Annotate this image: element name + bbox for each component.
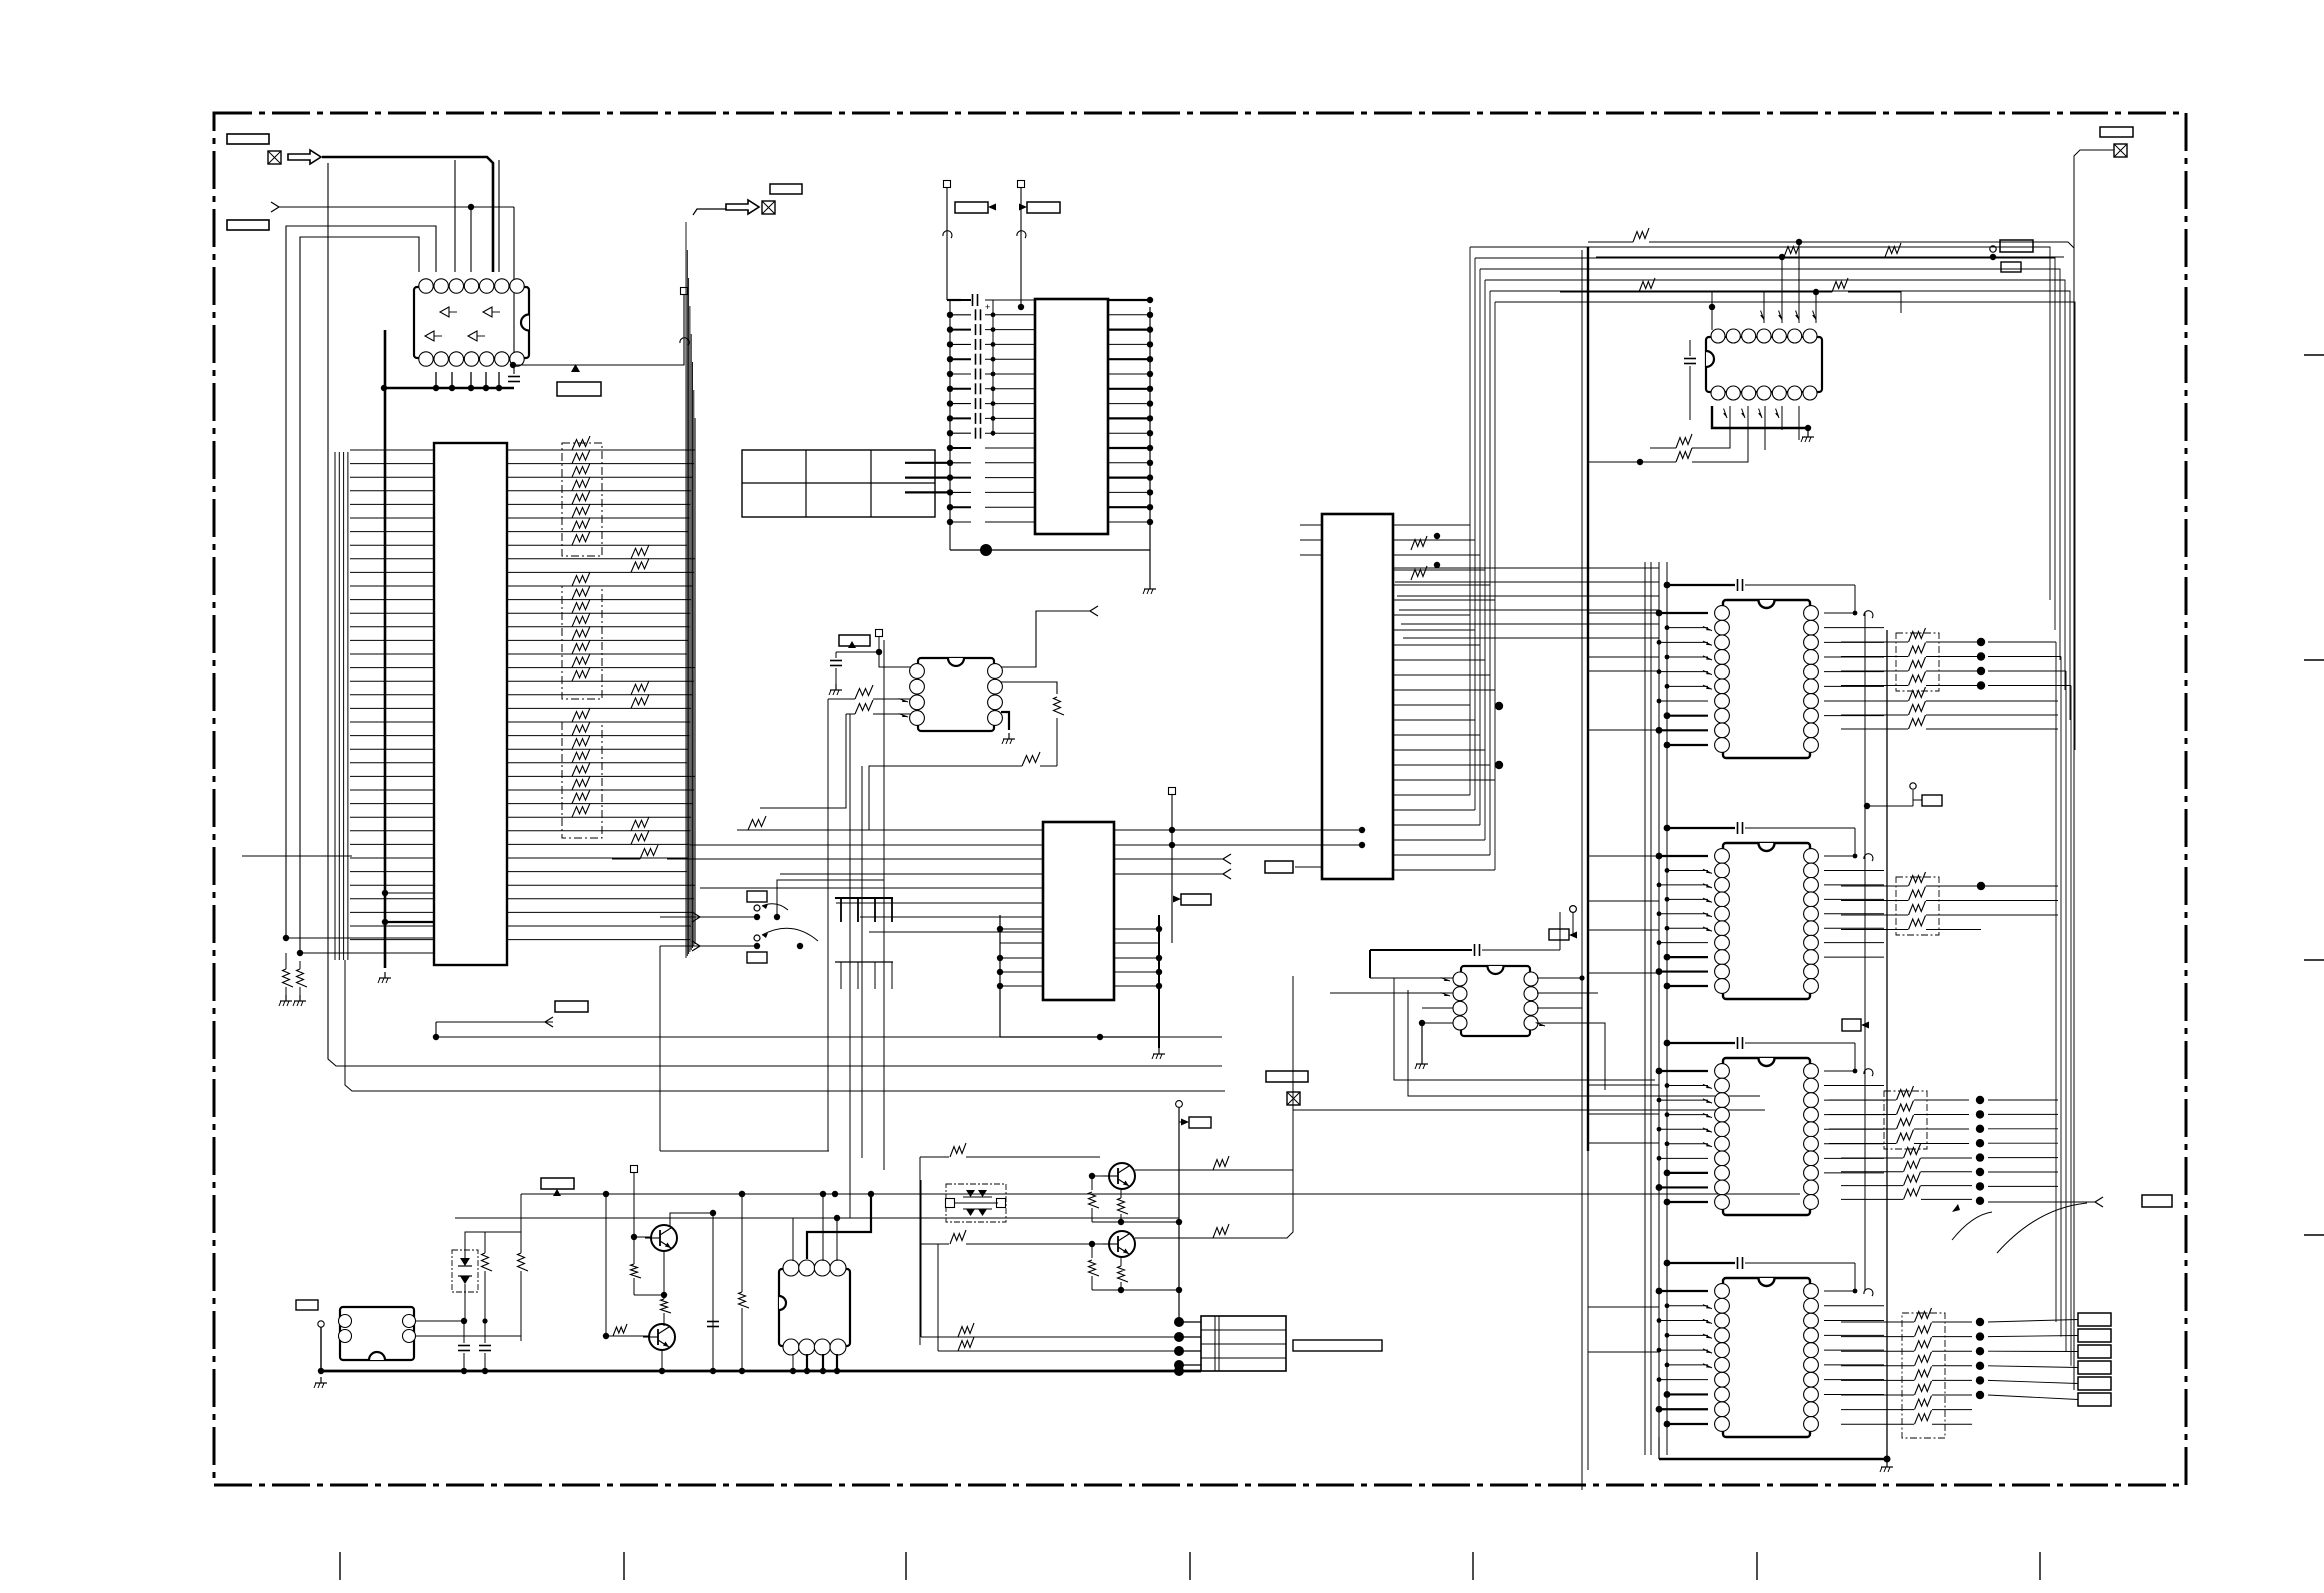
wire down to cap	[513, 207, 515, 374]
long net C	[455, 1217, 1179, 1219]
IC9 left pin wires	[1656, 853, 1712, 990]
curl symbol	[1864, 1289, 1873, 1296]
cap C3	[830, 660, 842, 662]
junction	[510, 362, 516, 368]
curl symbol	[1864, 854, 1873, 861]
wire net	[520, 1194, 522, 1232]
label box L11	[747, 891, 767, 902]
resistor R12	[631, 681, 649, 695]
label box L17	[1189, 1117, 1211, 1128]
IC10 right pin wires	[1824, 1086, 1884, 1173]
long net	[760, 714, 846, 808]
wire to pin	[454, 160, 456, 272]
IC1 bottom pin wires	[435, 372, 437, 388]
junction	[283, 935, 289, 941]
resistor R31	[518, 1253, 529, 1271]
ground bus bottom	[321, 1370, 1201, 1373]
wire loop	[1559, 912, 1561, 950]
resistor R16 to ground	[283, 969, 294, 987]
label box L6	[955, 202, 988, 213]
resistor R32	[739, 1292, 750, 1308]
dual diode D2 (dash-dot box)	[946, 1184, 1006, 1222]
IC3 right pin wires	[1108, 297, 1153, 525]
square terminal T1	[681, 288, 688, 295]
buffer IC9	[1723, 843, 1810, 999]
thick bus to CN1	[1174, 1366, 1184, 1376]
resistor R44	[1832, 278, 1848, 292]
riser top bend to A2	[693, 209, 726, 215]
ground	[1158, 1048, 1160, 1054]
square terminal	[876, 630, 883, 637]
resistor network RN3 (dash-dot box)	[562, 722, 602, 838]
resistor R23	[1022, 752, 1040, 766]
rail feed stubs	[1588, 612, 1659, 614]
junction node B	[1495, 761, 1503, 769]
curl symbol	[680, 338, 689, 345]
open arrow net	[545, 1017, 553, 1027]
resistor R41	[1885, 243, 1901, 257]
net lines	[1939, 885, 2058, 887]
long net B	[521, 1193, 1800, 1195]
decoupling capacitor C1	[508, 376, 520, 378]
switch SW1	[692, 912, 700, 922]
wire bend bus3	[328, 163, 1222, 1066]
resistor R11	[631, 558, 649, 572]
IC13 left wires	[1370, 977, 1453, 979]
ground	[384, 972, 386, 978]
wire stub	[385, 892, 434, 894]
square terminal	[1169, 788, 1176, 795]
label box L9	[1181, 894, 1211, 905]
bottom rail	[950, 549, 1150, 551]
gnd bus right	[1659, 1458, 1887, 1460]
IC2 left pin wires	[350, 450, 434, 940]
pll IC13	[1461, 966, 1530, 1036]
diode pair D1 (dash-dot box)	[452, 1250, 478, 1292]
left wire band	[335, 452, 348, 960]
wire horizontal net	[279, 206, 514, 208]
cap bus vertical	[992, 300, 994, 436]
resistor R33	[950, 1143, 966, 1157]
net lines 2	[1988, 1099, 2058, 1101]
resistor R50	[1411, 536, 1427, 550]
ground	[299, 995, 301, 1001]
net riser2	[849, 714, 851, 1218]
wire	[1001, 682, 1057, 694]
IC8 right pin wires	[1824, 628, 1884, 716]
label box L4	[770, 184, 802, 194]
resistor R43	[1639, 278, 1655, 292]
IC5 right wires b	[1114, 858, 1223, 860]
feed wire	[1178, 1108, 1180, 1322]
cap C12	[1737, 1257, 1739, 1269]
IC4 right wires	[1001, 611, 1090, 667]
wire	[712, 1213, 714, 1371]
junction	[710, 1368, 716, 1374]
wire riser	[919, 1157, 921, 1345]
IC12 right pin wires	[1393, 525, 1495, 870]
resistor network RN4	[1896, 633, 1939, 691]
label box L24	[1842, 1019, 1861, 1031]
wire to pin	[498, 160, 500, 272]
terminal circle	[1570, 906, 1577, 913]
svg-text:+: +	[985, 302, 990, 312]
label box L20	[2001, 262, 2021, 272]
IC13 right wires	[1537, 977, 1582, 979]
header J1	[835, 897, 893, 899]
IC11 right pin wires	[1824, 1306, 1884, 1395]
CN1 feed nets	[921, 1336, 1179, 1338]
wire bottom row b	[300, 952, 434, 954]
junction node A	[1495, 702, 1503, 710]
ground	[1149, 583, 1151, 589]
clock line 2	[1020, 186, 1022, 307]
main CPU IC2	[434, 443, 507, 965]
thick rail right	[1587, 247, 1589, 1151]
switch riser	[777, 880, 884, 917]
IC5 right wires c	[1114, 873, 1223, 875]
resistor R30	[482, 1253, 493, 1271]
net h2b	[1620, 292, 1712, 330]
net B dots	[739, 1191, 745, 1197]
signal flow arrow A1	[288, 150, 321, 164]
right ruler tick marks	[2304, 355, 2324, 1235]
big loop2	[1293, 976, 1765, 1110]
junction dots	[1977, 638, 1985, 646]
curl symbol	[943, 231, 952, 238]
bottom ruler tick marks	[340, 1552, 2040, 1580]
IC11 left pin wires	[1656, 1288, 1712, 1428]
wire bottom row a	[286, 937, 434, 939]
wire	[485, 1231, 521, 1233]
vertical riser band right	[2055, 642, 2057, 1322]
driver IC6	[779, 1269, 850, 1346]
double rail	[1581, 250, 1583, 1490]
resistor R24	[748, 816, 766, 830]
resistor R34	[950, 1230, 966, 1244]
cap C9	[1737, 579, 1739, 591]
logic IC7	[1706, 337, 1822, 392]
IC6 bottom wires	[792, 1354, 794, 1371]
curl symbol	[1864, 1069, 1873, 1076]
resistor R20	[855, 685, 873, 699]
terminal circle	[318, 1321, 324, 1327]
curl symbol	[1864, 611, 1873, 618]
label box L23	[2142, 1195, 2172, 1207]
resistor R21	[855, 700, 873, 714]
net bus mid1	[659, 946, 661, 1151]
CN1 pin dots	[1174, 1317, 1184, 1327]
ground bus under IC1	[384, 387, 514, 390]
cap C6	[707, 1321, 719, 1323]
IC6 left notch	[779, 1296, 786, 1310]
label box L19	[2000, 240, 2033, 252]
wire bend bus2	[300, 237, 419, 953]
bottom pin arrows	[1724, 409, 1727, 418]
motor connector CN1	[1201, 1316, 1286, 1371]
resistor network RN5	[1896, 877, 1939, 935]
power triangle	[848, 641, 856, 648]
cap C10	[1737, 822, 1739, 834]
signal flow arrow A2	[726, 200, 759, 214]
big loop1b	[1408, 990, 1760, 1096]
wire riser4	[937, 1244, 939, 1351]
thick stub	[385, 921, 434, 923]
resistor R25	[640, 845, 658, 859]
cap C5	[479, 1345, 491, 1347]
right riser wire band	[686, 222, 695, 958]
wire riser3	[920, 1180, 922, 1337]
left rail bus	[1644, 562, 1646, 1455]
wire down	[470, 207, 472, 272]
cap C4	[458, 1345, 470, 1347]
label box L21	[2100, 127, 2133, 137]
resistor R13	[631, 694, 649, 708]
loose resistors 2	[1904, 1144, 1921, 1158]
right rail	[1149, 307, 1151, 583]
op-amp IC4	[918, 658, 994, 731]
trim arrows	[1997, 1203, 2087, 1253]
resistor network RN7	[1902, 1313, 1945, 1438]
wire top link	[465, 1232, 485, 1240]
op-amp buffer IC1	[414, 287, 529, 358]
crystal resonator X2	[340, 1307, 414, 1360]
resistor R46	[1676, 448, 1692, 462]
label box L16	[1266, 1071, 1308, 1082]
thick wire	[1001, 712, 1009, 730]
terminal circle2	[1910, 783, 1916, 789]
cap C7	[1684, 358, 1696, 360]
junction	[433, 1034, 439, 1040]
resistor R14	[631, 817, 649, 831]
transistor Q3	[1109, 1163, 1135, 1189]
resistor R42	[1633, 228, 1649, 242]
label box L8	[839, 635, 870, 646]
junctions on bus	[381, 385, 387, 391]
square terminal	[944, 181, 951, 188]
net down	[869, 766, 1003, 830]
clock line 1	[946, 186, 948, 300]
Q4 bias	[1092, 1243, 1103, 1245]
IC12 left stubs	[1300, 524, 1322, 526]
resistor R15	[631, 830, 649, 844]
ground	[1807, 431, 1809, 437]
label box L3	[557, 382, 601, 396]
resistor R45	[1676, 434, 1692, 448]
servo IC5	[1043, 822, 1114, 1000]
IC7 left notch	[1706, 351, 1714, 367]
transistor Q2	[649, 1324, 675, 1350]
wire vcc	[836, 652, 911, 667]
off-page connector X3	[1287, 1092, 1300, 1105]
ground	[320, 1377, 322, 1383]
IC6 top wires	[792, 1218, 794, 1261]
label box L7	[1027, 202, 1060, 213]
IC8 left pin wires	[1656, 610, 1712, 749]
IC10 left pin wires	[1656, 1068, 1712, 1206]
electrolytic cap C2	[972, 294, 974, 306]
open arrowhead input	[271, 202, 279, 212]
net riser	[883, 640, 885, 1170]
left rail	[949, 300, 951, 550]
off-page connector X2	[762, 201, 775, 214]
label box L5	[555, 1001, 588, 1012]
option table	[742, 450, 935, 517]
label box L25	[1922, 795, 1942, 806]
net to pulse label	[513, 295, 684, 365]
IC3 left pin wires	[947, 300, 1035, 525]
thick corner	[947, 299, 961, 301]
IC7 top pin wires	[1763, 292, 1765, 323]
power triangle	[571, 364, 580, 372]
IC11 bottom rail	[1658, 1437, 1660, 1459]
ground	[1421, 1058, 1423, 1064]
sub-loop left rail	[999, 915, 1001, 1037]
connector stack CN2	[2078, 1313, 2111, 1326]
terminal circle	[1990, 246, 1996, 252]
cap C8	[1474, 944, 1476, 956]
bus wires tall-to-column	[1393, 568, 1659, 638]
top cross nets	[1470, 247, 2050, 600]
Q2 wires	[606, 1335, 650, 1337]
junction dots 3	[1976, 1318, 1984, 1326]
loose resistors	[1909, 687, 1926, 701]
Q4 collector net	[1135, 1237, 1255, 1239]
buffer IC11	[1723, 1278, 1810, 1437]
ground	[835, 684, 837, 690]
sub-loop right rail	[1158, 915, 1160, 1048]
wire riser left	[827, 699, 829, 1151]
ground	[1886, 1461, 1888, 1467]
IC12 riser band	[1470, 247, 1495, 870]
IC5 right wires a	[1114, 829, 1362, 831]
net riser mid	[861, 766, 863, 1158]
label box L2	[227, 220, 269, 230]
right thick rail	[1886, 630, 1888, 1459]
IC7 bottom wires	[1729, 406, 1731, 430]
transistor Q4	[1109, 1231, 1135, 1257]
video RAM IC3	[1035, 299, 1108, 534]
label box L12	[747, 952, 767, 963]
long net A	[660, 1150, 829, 1152]
resistor network RN1 (dash-dot box)	[562, 443, 602, 556]
cap C11	[1737, 1037, 1739, 1049]
Q3 bias	[1100, 1156, 1103, 1158]
crystal wires	[415, 1320, 464, 1322]
wire to X4	[2074, 150, 2114, 248]
label box L14	[541, 1178, 574, 1189]
off-page connector X1	[268, 151, 281, 164]
resistor R22	[1054, 697, 1065, 715]
square terminal	[1018, 181, 1025, 188]
CN2 wire links	[1988, 1320, 2078, 1323]
junctions	[461, 1318, 467, 1324]
vertical	[520, 1194, 522, 1232]
thick drive L	[807, 1196, 871, 1259]
wire cap to net	[513, 365, 515, 385]
net out	[1988, 1201, 2095, 1203]
wire bend bus1	[286, 226, 436, 938]
resistor network RN2 (dash-dot box)	[562, 586, 602, 699]
sub-loop bottom	[1000, 1036, 1159, 1038]
Q1 wires	[634, 1236, 652, 1238]
IC9 right pin wires	[1824, 870, 1884, 957]
switch SW2	[692, 941, 700, 951]
net lines rn4	[1988, 641, 2056, 643]
interface IC12	[1322, 514, 1393, 879]
long net mid	[436, 1036, 1222, 1038]
resistor R51	[1411, 566, 1427, 580]
transistor Q1	[651, 1225, 677, 1251]
wire	[1287, 1169, 1293, 1171]
label bar L18	[1293, 1340, 1382, 1351]
long net wire	[345, 960, 1225, 1091]
ground	[285, 995, 287, 1001]
buffer IC8	[1723, 600, 1810, 758]
thick rail into IC2	[384, 330, 387, 968]
terminal circle	[1176, 1101, 1183, 1108]
label box L22	[1549, 929, 1569, 940]
junction	[468, 204, 474, 210]
sub-loop wires	[1000, 928, 1043, 930]
wire	[1421, 1023, 1423, 1058]
junction dots 2	[1976, 1096, 1984, 1104]
Q3 collector net	[1135, 1169, 1287, 1171]
IC3 low stubs	[905, 462, 950, 464]
bypass capacitor array	[976, 309, 981, 438]
big loop	[1394, 978, 1655, 1080]
label box L10	[1265, 861, 1293, 873]
header J2	[835, 961, 893, 963]
resistor R17 to ground	[297, 969, 308, 987]
IC2 right pin wires	[507, 450, 695, 940]
ground	[1008, 733, 1010, 739]
curl symbol	[1017, 231, 1026, 238]
resistor R10	[631, 545, 649, 559]
wire thick from A1	[322, 157, 493, 272]
IC5 left pin wires	[667, 830, 1043, 932]
inverter gates in IC1	[425, 307, 500, 341]
buffer IC10	[1723, 1058, 1810, 1215]
sub-loop right stubs	[1114, 928, 1159, 930]
mid rail	[1864, 613, 1866, 1291]
junction	[382, 919, 388, 925]
off-page connector X4	[2114, 144, 2127, 157]
resistor R40	[1784, 243, 1800, 257]
thick gnd L	[1712, 406, 1808, 428]
label box L1	[227, 134, 269, 144]
label box L13	[296, 1300, 318, 1310]
net h1	[1596, 256, 2064, 258]
resistor network RN6	[1884, 1091, 1927, 1149]
junction dot	[1977, 882, 1985, 890]
big junction	[980, 544, 992, 556]
page border frame (dash-dot)	[214, 113, 2186, 1485]
square terminal	[631, 1166, 638, 1173]
